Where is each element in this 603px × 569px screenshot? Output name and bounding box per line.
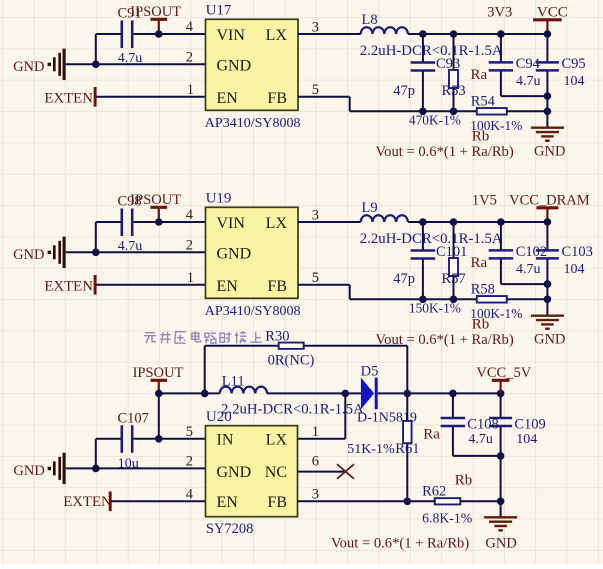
wire R30 right xyxy=(304,346,408,394)
wire cap branch vertical c3 xyxy=(95,439,97,469)
inductor L11 xyxy=(220,387,267,394)
pin name NC U20 xyxy=(265,464,287,481)
pin name LX U17 xyxy=(266,27,288,44)
wire FB step c2 xyxy=(298,285,350,300)
capacitor C109 xyxy=(489,418,512,426)
resistor R61 xyxy=(403,421,412,443)
capacitor C101 xyxy=(411,251,436,259)
svg-text:EN: EN xyxy=(217,494,239,511)
label GND right c2 xyxy=(534,331,565,347)
pin number 4 c1 xyxy=(186,19,194,35)
power port IPSOUT circuit 2 xyxy=(130,192,181,222)
designator R53 xyxy=(442,83,466,99)
pin number 3 c1 xyxy=(312,19,319,35)
power ground GND right circuit 3 xyxy=(484,517,517,530)
capacitor C91 xyxy=(122,21,132,49)
wire inductor to diode xyxy=(267,392,361,394)
designator C107 xyxy=(118,410,149,426)
svg-text:FB: FB xyxy=(267,90,287,107)
junction R61 bottom xyxy=(404,498,412,506)
pin name GND U17 xyxy=(217,57,252,74)
wire EXTEN to EN c3 xyxy=(112,500,206,502)
wire pin5 row c3 xyxy=(96,438,206,440)
svg-text:Rb: Rb xyxy=(472,129,490,145)
capacitor C94 branch xyxy=(501,34,548,96)
resistor R62 xyxy=(435,498,461,504)
junction VCC_5V node xyxy=(497,390,505,398)
pin number 1 c3 xyxy=(312,424,319,440)
designator C94 xyxy=(516,56,541,72)
svg-text:2: 2 xyxy=(186,237,193,253)
power port VCC_DRAM xyxy=(509,193,590,222)
pin name FB U19 xyxy=(267,278,287,295)
pin number 5 c1 xyxy=(312,82,319,98)
svg-text:NC: NC xyxy=(265,464,287,481)
designator R30 xyxy=(265,328,289,344)
svg-text:2: 2 xyxy=(186,453,193,469)
capacitor C102 branch xyxy=(501,222,548,284)
svg-text:R58: R58 xyxy=(471,282,495,298)
value C101 47p xyxy=(393,271,415,287)
wire pin4 row c1 xyxy=(96,33,206,35)
junction C101 top xyxy=(419,218,427,226)
wire R54 to gnd stem xyxy=(507,110,548,112)
junction VCC node c1 xyxy=(544,30,552,38)
designator U20 xyxy=(206,409,232,425)
wire LX to inductor c2 xyxy=(298,221,361,223)
svg-text:5: 5 xyxy=(312,270,319,286)
wire inductor to VCC node c1 xyxy=(408,33,548,35)
svg-text:GND: GND xyxy=(534,331,565,347)
svg-text:L8: L8 xyxy=(362,12,378,28)
wire GND to pin2 U20 xyxy=(66,467,206,469)
capacitor C102 xyxy=(489,250,514,258)
label Ra c2 xyxy=(471,255,488,271)
designator C108 xyxy=(467,417,498,433)
svg-text:2.2uH-DCR<0.1R-1.5A: 2.2uH-DCR<0.1R-1.5A xyxy=(221,401,364,417)
junction R57 top xyxy=(450,218,458,226)
designator C93 xyxy=(436,56,460,72)
svg-text:D5: D5 xyxy=(361,363,379,379)
designator D5 xyxy=(361,363,379,379)
junction R54 gnd xyxy=(544,108,552,116)
svg-text:4: 4 xyxy=(186,207,194,223)
svg-text:51K-1%: 51K-1% xyxy=(347,442,395,457)
value U20 SY7208 xyxy=(206,521,254,537)
inductor L9 xyxy=(361,215,408,222)
svg-text:5: 5 xyxy=(312,82,319,98)
capacitor C108 branch xyxy=(453,393,501,456)
pin name GND U19 xyxy=(217,245,252,262)
value C98 4.7u xyxy=(118,239,143,254)
svg-text:Ra: Ra xyxy=(471,255,488,271)
junction R62 gnd xyxy=(497,498,505,506)
wire FB rail c1 xyxy=(350,110,477,112)
value U19 AP3410/SY8008 xyxy=(205,304,301,319)
wire EXTEN to EN c1 xyxy=(96,96,205,98)
svg-text:Rb: Rb xyxy=(472,317,490,333)
svg-text:4.7u: 4.7u xyxy=(516,74,541,89)
svg-text:VIN: VIN xyxy=(217,27,246,44)
svg-text:R61: R61 xyxy=(395,441,419,457)
wire IPSOUT to inductor xyxy=(159,392,220,394)
power ground GND right circuit 2 xyxy=(531,316,564,329)
capacitor C93 branch top xyxy=(422,34,424,62)
capacitor C94 xyxy=(489,62,514,70)
value R57 150K-1% xyxy=(409,301,461,316)
wire FB to R62 rail xyxy=(298,500,435,502)
svg-text:IN: IN xyxy=(217,432,234,449)
svg-text:LX: LX xyxy=(266,215,288,232)
svg-text:GND: GND xyxy=(13,247,44,263)
designator C95 xyxy=(562,56,586,72)
junction gnd-cap branch c3 xyxy=(92,465,100,473)
label Rb c1 xyxy=(472,129,490,145)
designator U19 xyxy=(206,191,232,207)
designator C109 xyxy=(514,417,545,433)
value C102 4.7u xyxy=(516,262,541,277)
junction C93 top xyxy=(419,30,427,38)
capacitor C101 branch bottom xyxy=(422,260,424,300)
junction IPSOUT node c1 xyxy=(155,30,163,38)
power ground GND right circuit 1 xyxy=(531,128,564,141)
svg-text:3: 3 xyxy=(312,207,319,223)
pin number 1 c2 xyxy=(187,270,194,286)
value C107 10u xyxy=(118,457,139,472)
wire EXTEN to EN c2 xyxy=(96,284,205,286)
wire GND to pin2 U19 xyxy=(66,251,206,253)
value C93 47p xyxy=(393,83,415,99)
designator C102 xyxy=(516,244,547,260)
designator L9 xyxy=(362,200,378,216)
wire LX to inductor c1 xyxy=(298,33,361,35)
capacitor C101 branch top xyxy=(422,222,424,250)
svg-text:LX: LX xyxy=(266,432,288,449)
svg-text:4.7u: 4.7u xyxy=(468,432,493,447)
wire IPSOUT down to IN xyxy=(158,393,160,438)
pin number 4 c3 xyxy=(186,486,194,502)
svg-text:L11: L11 xyxy=(222,374,245,390)
capacitor C107 xyxy=(122,425,132,453)
svg-text:EXTEN: EXTEN xyxy=(44,278,93,294)
pin number 1 c1 xyxy=(187,82,194,98)
svg-text:3: 3 xyxy=(312,486,319,502)
pin number 4 c2 xyxy=(186,207,194,223)
junction R30 left xyxy=(201,390,209,398)
no-connect X on pin 6 xyxy=(337,464,354,479)
svg-text:470K-1%: 470K-1% xyxy=(409,113,461,128)
power port IPSOUT circuit 1 xyxy=(130,4,181,34)
label Rb c2 xyxy=(472,317,490,333)
designator L11 xyxy=(222,374,245,390)
resistor R53 branch bottom xyxy=(453,88,455,111)
label Ra c1 xyxy=(471,67,488,83)
svg-text:GND: GND xyxy=(217,57,252,74)
resistor R57 branch bottom xyxy=(453,276,455,299)
wire NC pin stub xyxy=(298,471,346,473)
junction C94 top xyxy=(497,30,505,38)
svg-text:1: 1 xyxy=(187,82,194,98)
svg-text:104: 104 xyxy=(564,74,585,89)
pin number 5 c2 xyxy=(312,270,319,286)
capacitor C95 branch xyxy=(546,34,548,128)
svg-text:3: 3 xyxy=(312,19,319,35)
wire inductor to VCC node c2 xyxy=(408,221,548,223)
IC U19 body xyxy=(206,207,299,298)
resistor R58 xyxy=(477,296,507,303)
svg-text:R54: R54 xyxy=(471,94,496,110)
pin name GND U20 xyxy=(217,464,252,481)
junction R58 gnd xyxy=(544,296,552,304)
designator C101 xyxy=(436,244,467,260)
svg-text:Ra: Ra xyxy=(471,67,488,83)
diode D5 xyxy=(361,378,376,410)
capacitor C95 xyxy=(536,62,559,70)
wire pin4 row c2 xyxy=(96,221,206,223)
port EXTEN circuit 3 xyxy=(63,492,112,512)
wire diode to VCC_5V node xyxy=(378,392,501,394)
wire GND to pin2 U17 xyxy=(66,63,206,65)
pin name FB U17 xyxy=(267,90,287,107)
svg-text:GND: GND xyxy=(217,245,252,262)
capacitor C108 xyxy=(441,418,466,426)
svg-text:2.2uH-DCR<0.1R-1.5A: 2.2uH-DCR<0.1R-1.5A xyxy=(360,231,503,247)
resistor R30 xyxy=(279,343,304,349)
svg-text:C103: C103 xyxy=(562,244,593,260)
svg-text:Vout = 0.6*(1 + Ra/Rb): Vout = 0.6*(1 + Ra/Rb) xyxy=(331,535,469,551)
resistor R57 xyxy=(449,258,458,276)
svg-text:AP3410/SY8008: AP3410/SY8008 xyxy=(205,304,301,319)
value C108 4.7u xyxy=(468,432,493,447)
junction gnd-cap branch c1 xyxy=(92,61,100,69)
svg-text:4.7u: 4.7u xyxy=(118,51,143,66)
wire FB rail c2 xyxy=(350,298,477,300)
resistor R61 branch top xyxy=(406,393,408,421)
svg-text:4.7u: 4.7u xyxy=(516,262,541,277)
value C94 4.7u xyxy=(516,74,541,89)
value U17 AP3410/SY8008 xyxy=(205,116,301,131)
IC U20 body xyxy=(206,426,298,517)
svg-text:U20: U20 xyxy=(206,409,232,425)
label Ra c3 xyxy=(423,427,440,443)
note Vout formula c3 xyxy=(331,535,469,551)
value L9 2.2uH xyxy=(360,231,503,247)
pin number 3 c3 xyxy=(312,486,319,502)
svg-text:R53: R53 xyxy=(442,83,466,99)
net label 1V5 xyxy=(472,193,497,209)
designator C91 xyxy=(118,6,142,22)
pin name FB U20 xyxy=(267,494,287,511)
junction C108 top xyxy=(449,390,457,398)
power port VCC xyxy=(533,5,568,34)
svg-text:2.2uH-DCR<0.1R-1.5A: 2.2uH-DCR<0.1R-1.5A xyxy=(360,43,503,59)
svg-text:GND: GND xyxy=(13,463,44,479)
value C91 4.7u xyxy=(118,51,143,66)
svg-text:5: 5 xyxy=(186,424,193,440)
junction IPSOUT node c2 xyxy=(155,218,163,226)
wire LX pin to riser xyxy=(298,438,346,440)
svg-text:GND: GND xyxy=(217,464,252,481)
junction R61 top xyxy=(404,390,412,398)
wire cap branch vertical c2 xyxy=(95,222,97,252)
pin name EN U17 xyxy=(217,90,239,107)
pin number 6 c3 xyxy=(312,453,319,469)
junction C108/C109 bottom xyxy=(497,452,505,460)
svg-text:FB: FB xyxy=(267,278,287,295)
junction VCC node c2 xyxy=(544,218,552,226)
capacitor C103 xyxy=(536,250,559,258)
designator R58 xyxy=(471,282,495,298)
pin name EN U19 xyxy=(217,278,239,295)
designator R61 xyxy=(395,441,419,457)
junction C101 bottom xyxy=(419,296,427,304)
svg-text:4: 4 xyxy=(186,486,194,502)
value D5 D-1N5819 xyxy=(357,410,417,425)
svg-text:R57: R57 xyxy=(442,271,466,287)
svg-text:104: 104 xyxy=(564,262,585,277)
designator C98 xyxy=(118,194,142,210)
svg-text:IPSOUT: IPSOUT xyxy=(130,192,181,208)
label GND right c1 xyxy=(534,143,565,159)
pin number 2 c1 xyxy=(186,49,193,65)
designator R57 xyxy=(442,271,466,287)
net label 3V3 xyxy=(487,5,512,21)
wire R30 left riser xyxy=(205,346,279,394)
pin name EN U20 xyxy=(217,494,239,511)
svg-text:GND: GND xyxy=(13,59,44,75)
power port GND (signal ground) circuit 1 xyxy=(13,49,64,80)
svg-text:EXTEN: EXTEN xyxy=(44,90,93,106)
svg-text:GND: GND xyxy=(534,143,565,159)
pin name IN U20 xyxy=(217,432,234,449)
value R58 100K-1% xyxy=(470,306,522,321)
junction caps bottom c1 xyxy=(544,92,552,100)
junction caps bottom c2 xyxy=(544,280,552,288)
svg-text:0R(NC): 0R(NC) xyxy=(268,352,315,368)
svg-text:SY7208: SY7208 xyxy=(206,521,254,537)
svg-text:EXTEN: EXTEN xyxy=(63,494,112,510)
svg-text:4: 4 xyxy=(186,19,194,35)
resistor R53 xyxy=(449,70,458,88)
value L11 2.2uH xyxy=(221,401,364,417)
label GND right c3 xyxy=(485,535,516,551)
svg-text:Vout = 0.6*(1 + Ra/Rb): Vout = 0.6*(1 + Ra/Rb) xyxy=(376,144,514,160)
pin number 3 c2 xyxy=(312,207,319,223)
junction IN node xyxy=(155,435,163,443)
svg-text:4.7u: 4.7u xyxy=(118,239,143,254)
svg-text:C95: C95 xyxy=(562,56,586,72)
junction R53 top xyxy=(450,30,458,38)
svg-text:150K-1%: 150K-1% xyxy=(409,301,461,316)
designator C103 xyxy=(562,244,593,260)
power port GND (signal ground) circuit 2 xyxy=(13,237,64,268)
power port GND (signal ground) circuit 3 xyxy=(13,453,64,484)
svg-text:IPSOUT: IPSOUT xyxy=(130,4,181,20)
svg-text:VIN: VIN xyxy=(217,215,246,232)
svg-text:LX: LX xyxy=(266,27,288,44)
svg-text:FB: FB xyxy=(267,494,287,511)
svg-text:104: 104 xyxy=(516,432,537,447)
value R61 51K-1% xyxy=(347,442,395,457)
svg-text:AP3410/SY8008: AP3410/SY8008 xyxy=(205,116,301,131)
svg-text:C109: C109 xyxy=(514,417,545,433)
pin name LX U20 xyxy=(266,432,288,449)
wire LX riser xyxy=(344,393,346,438)
junction gnd-cap branch c2 xyxy=(92,249,100,257)
wire R58 to gnd stem xyxy=(507,298,548,300)
port EXTEN circuit 1 xyxy=(44,87,95,107)
junction IPSOUT node c3 xyxy=(155,390,163,398)
power port VCC_5V xyxy=(476,365,531,393)
power port IPSOUT circuit 3 xyxy=(133,365,184,393)
pin number 5 c3 xyxy=(186,424,193,440)
pin number 2 c2 xyxy=(186,237,193,253)
resistor R54 xyxy=(477,108,507,115)
note Chinese text 无升压电路时接上 xyxy=(144,331,262,343)
svg-text:6: 6 xyxy=(312,453,319,469)
svg-text:10u: 10u xyxy=(118,457,139,472)
svg-text:EN: EN xyxy=(217,90,239,107)
svg-text:C107: C107 xyxy=(118,410,149,426)
svg-text:U17: U17 xyxy=(206,3,232,19)
value R53 470K-1% xyxy=(409,113,461,128)
svg-text:1V5: 1V5 xyxy=(472,193,497,209)
pin name LX U19 xyxy=(266,215,288,232)
port EXTEN circuit 2 xyxy=(44,275,95,295)
value R62 6.8K-1% xyxy=(422,511,473,526)
capacitor C109 branch xyxy=(500,393,502,517)
pin number 2 c3 xyxy=(186,453,193,469)
junction R53 bottom xyxy=(450,108,458,116)
wire cap branch vertical c1 xyxy=(95,34,97,64)
svg-text:3V3: 3V3 xyxy=(487,5,512,21)
capacitor C103 branch xyxy=(546,222,548,316)
value R54 100K-1% xyxy=(470,118,522,133)
value R30 0R(NC) xyxy=(268,352,315,368)
resistor R53 branch top xyxy=(453,34,455,70)
svg-text:IPSOUT: IPSOUT xyxy=(133,365,184,381)
value C95 104 xyxy=(564,74,585,89)
pin name VIN U17 xyxy=(217,27,246,44)
note Vout formula c2 xyxy=(376,332,514,348)
svg-text:Rb: Rb xyxy=(455,473,473,489)
junction LX riser xyxy=(342,390,350,398)
junction R57 bottom xyxy=(450,296,458,304)
resistor R57 branch top xyxy=(453,222,455,258)
junction C102 top xyxy=(497,218,505,226)
designator R62 xyxy=(422,484,446,500)
svg-text:Ra: Ra xyxy=(423,427,440,443)
note Vout formula c1 xyxy=(376,144,514,160)
designator R54 xyxy=(471,94,496,110)
svg-text:2: 2 xyxy=(186,49,193,65)
junction C93 bottom xyxy=(419,108,427,116)
svg-text:47p: 47p xyxy=(393,271,415,287)
svg-text:U19: U19 xyxy=(206,191,232,207)
wire FB step c1 xyxy=(298,97,350,112)
svg-text:6.8K-1%: 6.8K-1% xyxy=(422,511,473,526)
svg-text:47p: 47p xyxy=(393,83,415,99)
svg-text:R62: R62 xyxy=(422,484,446,500)
svg-text:GND: GND xyxy=(485,535,516,551)
IC U17 body xyxy=(206,19,299,110)
value L8 2.2uH xyxy=(360,43,503,59)
wire R62 to gnd xyxy=(460,500,500,502)
capacitor C98 xyxy=(122,209,132,237)
label Rb c3 xyxy=(455,473,473,489)
value C109 104 xyxy=(516,432,537,447)
svg-text:1: 1 xyxy=(187,270,194,286)
